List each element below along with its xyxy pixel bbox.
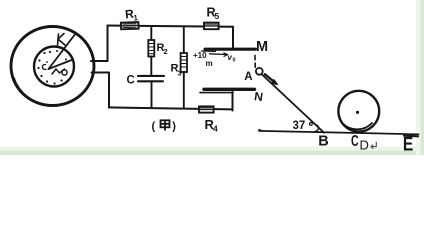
svg-text:5: 5 — [215, 11, 220, 21]
svg-text:(: ( — [152, 121, 156, 133]
svg-text:E: E — [403, 133, 414, 155]
svg-text:M: M — [256, 39, 268, 55]
svg-text:B: B — [318, 134, 328, 150]
svg-text:0: 0 — [233, 58, 236, 64]
svg-text:C: C — [127, 75, 135, 87]
svg-text:4: 4 — [213, 123, 218, 133]
svg-text:m: m — [206, 59, 213, 68]
svg-text:A: A — [244, 71, 252, 83]
svg-text:D: D — [360, 138, 369, 153]
svg-text:2: 2 — [164, 47, 168, 56]
svg-text:C: C — [351, 132, 359, 150]
svg-text:37: 37 — [293, 120, 306, 132]
svg-text:): ) — [172, 121, 176, 133]
svg-text:3: 3 — [178, 69, 182, 78]
